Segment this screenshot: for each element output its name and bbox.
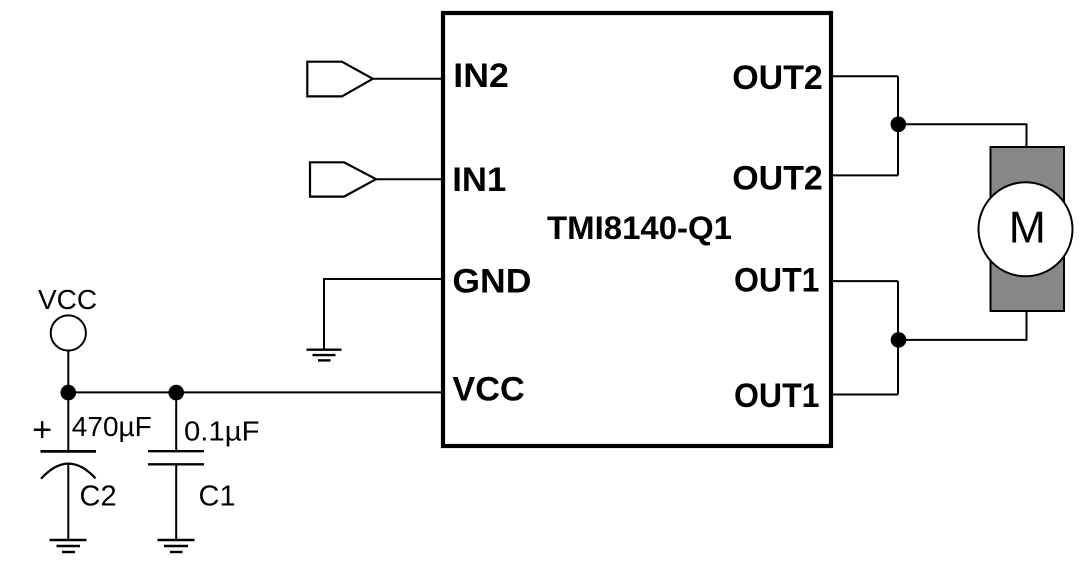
VCC supply circle <box>51 315 86 350</box>
input flag IN1 <box>310 162 376 196</box>
capacitor C1 top plate <box>148 450 204 452</box>
capacitor C1 wire from rail to top plate <box>175 392 177 451</box>
capacitor C1 bottom plate <box>148 463 204 465</box>
junction dot OUT2 tie <box>891 117 907 133</box>
IC U1 TMI8140-Q1 body <box>443 13 831 446</box>
wire C2 to ground <box>67 465 69 540</box>
svg-text:OUT1: OUT1 <box>734 262 820 300</box>
capacitor C2 top plate <box>41 450 97 453</box>
svg-text:IN2: IN2 <box>453 57 509 95</box>
svg-text:0.1µF: 0.1µF <box>184 416 260 447</box>
wire OUT1 upper pin <box>831 280 898 282</box>
wire VCC rail <box>68 391 443 393</box>
ground symbol at GND pin <box>307 350 342 361</box>
wire GND pin to ground <box>324 279 443 349</box>
capacitor C2 curved bottom plate <box>41 464 96 479</box>
input flag IN2 <box>307 62 373 97</box>
motor M1 body (gray) <box>991 147 1065 311</box>
wire OUT1 lower pin <box>831 394 898 396</box>
svg-text:TMI8140-Q1: TMI8140-Q1 <box>547 210 732 246</box>
wire OUT1 tie to motor bottom <box>898 311 1027 340</box>
svg-text:VCC: VCC <box>38 284 97 315</box>
wire IN2 flag to pin <box>373 78 443 80</box>
svg-text:IN1: IN1 <box>452 161 506 199</box>
svg-text:GND: GND <box>452 263 531 301</box>
wire VCC circle to rail <box>67 351 69 393</box>
svg-text:OUT1: OUT1 <box>734 377 820 415</box>
wire IN1 flag to pin <box>376 178 443 180</box>
svg-text:470µF: 470µF <box>72 411 152 442</box>
junction dot at C1 tap <box>168 385 184 401</box>
svg-text:C2: C2 <box>80 481 117 513</box>
junction dot at C2 tap <box>61 385 77 401</box>
ground symbol below C2 <box>50 540 87 552</box>
svg-text:OUT2: OUT2 <box>732 59 823 97</box>
wire OUT2 tie to motor top <box>898 124 1027 148</box>
motor M1 circle <box>979 182 1073 276</box>
svg-text:VCC: VCC <box>452 371 524 409</box>
svg-text:M: M <box>1009 204 1046 253</box>
wire OUT2 lower pin <box>831 174 898 176</box>
wire OUT1 vertical tie <box>897 281 899 394</box>
wire C1 to ground <box>175 464 177 540</box>
svg-text:OUT2: OUT2 <box>732 159 823 197</box>
wire OUT2 vertical tie <box>897 76 899 175</box>
wire OUT2 upper pin <box>831 75 898 77</box>
ground symbol below C1 <box>158 540 195 552</box>
junction dot OUT1 tie <box>891 332 907 348</box>
capacitor C2 wire from rail to top plate <box>67 392 69 451</box>
svg-text:C1: C1 <box>199 481 236 513</box>
svg-text:+: + <box>32 411 52 449</box>
